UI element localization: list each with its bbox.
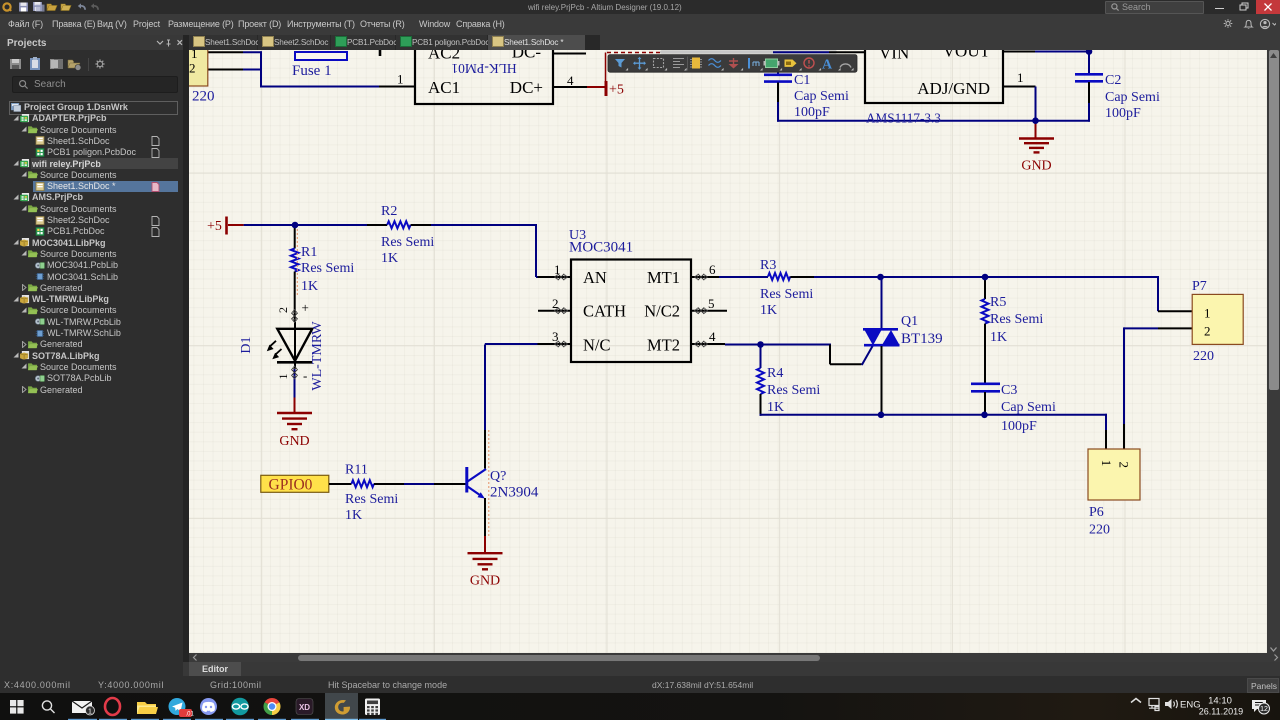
svg-text:1: 1 (1017, 70, 1024, 85)
svg-text:C3: C3 (1001, 383, 1017, 398)
svg-text:3: 3 (552, 329, 559, 344)
svg-text:+: + (302, 300, 309, 315)
svg-text:1: 1 (276, 374, 290, 380)
svg-text:5: 5 (708, 296, 715, 311)
svg-text:100pF: 100pF (1105, 106, 1141, 121)
svg-text:Res Semi: Res Semi (990, 312, 1043, 327)
svg-text:MT1: MT1 (647, 268, 680, 287)
svg-text:GND: GND (1021, 159, 1051, 174)
svg-text:R11: R11 (345, 463, 368, 478)
svg-text:AN: AN (583, 268, 607, 287)
svg-text:R5: R5 (990, 295, 1006, 310)
svg-text:BT139: BT139 (901, 331, 943, 347)
svg-text:2: 2 (552, 296, 559, 311)
svg-text:HLK-PM01: HLK-PM01 (451, 61, 516, 76)
svg-text:+5: +5 (609, 83, 624, 98)
svg-text:1: 1 (88, 708, 92, 715)
svg-text:Res Semi: Res Semi (301, 261, 354, 276)
svg-text:12: 12 (1260, 706, 1268, 713)
svg-text:R2: R2 (381, 204, 397, 219)
svg-text:1: 1 (1099, 460, 1114, 467)
svg-text:4: 4 (709, 329, 716, 344)
svg-text:R1: R1 (301, 245, 317, 260)
svg-text:D1: D1 (239, 336, 254, 353)
svg-text:GND: GND (470, 574, 500, 589)
svg-text:1: 1 (191, 50, 198, 61)
svg-text:2: 2 (189, 61, 196, 76)
svg-text:100pF: 100pF (1001, 419, 1037, 434)
svg-text:1: 1 (1204, 306, 1211, 321)
svg-text:DC-: DC- (512, 50, 542, 62)
svg-text:1: 1 (397, 72, 404, 87)
svg-text:1K: 1K (381, 251, 398, 266)
svg-text:2: 2 (1116, 462, 1131, 469)
svg-text:A: A (822, 58, 833, 73)
svg-text:100pF: 100pF (794, 105, 830, 120)
svg-text:GND: GND (279, 434, 309, 449)
svg-text:CATH: CATH (583, 302, 626, 321)
svg-text:Q?: Q? (490, 469, 506, 484)
svg-text:2: 2 (276, 307, 290, 313)
svg-text:1K: 1K (990, 330, 1007, 345)
svg-text:.01: .01 (186, 711, 195, 717)
svg-text:Cap Semi: Cap Semi (1105, 90, 1160, 105)
svg-text:C1: C1 (794, 73, 810, 88)
svg-text:DC+: DC+ (510, 78, 543, 97)
svg-text:14:10: 14:10 (1208, 696, 1232, 707)
svg-text:1K: 1K (301, 279, 318, 294)
svg-text:Res Semi: Res Semi (760, 287, 813, 302)
svg-text:MOC3041: MOC3041 (569, 240, 633, 256)
svg-text:Fuse 1: Fuse 1 (292, 63, 332, 79)
svg-text:+5: +5 (207, 219, 222, 234)
svg-text:XD: XD (299, 703, 310, 712)
svg-text:P7: P7 (1192, 279, 1207, 294)
svg-text:1K: 1K (760, 303, 777, 318)
svg-text:VOUT: VOUT (943, 50, 991, 61)
svg-text:Cap Semi: Cap Semi (1001, 400, 1056, 415)
svg-text:N/C: N/C (583, 336, 611, 355)
svg-text:-: - (303, 368, 307, 383)
svg-text:1: 1 (554, 262, 561, 277)
svg-text:220: 220 (1089, 523, 1110, 538)
svg-text:N/C2: N/C2 (644, 302, 680, 321)
svg-text:1K: 1K (767, 400, 784, 415)
svg-text:Cap Semi: Cap Semi (794, 89, 849, 104)
svg-text:1K: 1K (345, 508, 362, 523)
svg-text:VIN: VIN (879, 50, 909, 63)
svg-text:26.11.2019: 26.11.2019 (1199, 707, 1243, 717)
svg-text:AC2: AC2 (428, 50, 460, 63)
svg-text:C2: C2 (1105, 73, 1121, 88)
svg-text:2N3904: 2N3904 (490, 485, 539, 501)
svg-text:R3: R3 (760, 258, 776, 273)
svg-text:GPIO0: GPIO0 (269, 477, 313, 494)
svg-text:MT2: MT2 (647, 336, 680, 355)
svg-text:Res Semi: Res Semi (381, 235, 434, 250)
svg-text:R4: R4 (767, 366, 783, 381)
svg-text:4: 4 (567, 73, 574, 88)
svg-text:6: 6 (709, 262, 716, 277)
svg-text:Res Semi: Res Semi (345, 492, 398, 507)
svg-text:2: 2 (1204, 324, 1211, 339)
svg-text:ADJ/GND: ADJ/GND (917, 79, 990, 98)
svg-text:AC1: AC1 (428, 78, 460, 97)
svg-text:ENG: ENG (1180, 700, 1201, 711)
svg-text:P6: P6 (1089, 505, 1104, 520)
svg-text:WL-TMRW: WL-TMRW (310, 321, 325, 391)
svg-text:220: 220 (192, 89, 215, 105)
svg-text:Q1: Q1 (901, 314, 918, 329)
svg-text:AMS1117-3.3: AMS1117-3.3 (866, 111, 941, 126)
svg-text:220: 220 (1193, 349, 1214, 364)
svg-text:Res Semi: Res Semi (767, 383, 820, 398)
